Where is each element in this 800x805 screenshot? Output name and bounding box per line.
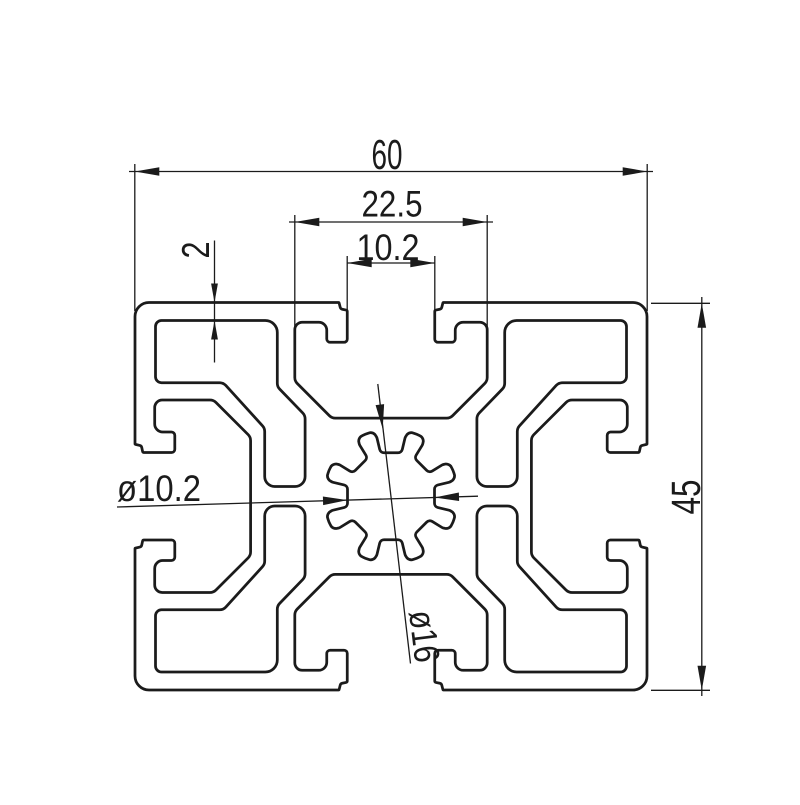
svg-text:22.5: 22.5	[362, 184, 423, 225]
dim 60 right arrowhead	[623, 167, 648, 176]
dim 10.2 left arrowhead	[347, 259, 372, 268]
svg-text:10.2: 10.2	[357, 227, 420, 268]
center star bore	[327, 433, 454, 560]
dim 45 line	[701, 297, 703, 696]
dim 22.5 right arrowhead	[463, 218, 488, 227]
dim 2 shaft	[214, 241, 216, 363]
dim 2 upper arrowhead	[211, 284, 218, 303]
dim 60 line	[129, 171, 653, 173]
dia10.2 left arrowhead	[323, 497, 348, 506]
dim 22.5 line	[289, 221, 493, 223]
chamber NE	[477, 506, 627, 672]
leader dia16	[378, 384, 411, 664]
dim 60 left arrowhead	[135, 167, 160, 176]
chamber SE	[477, 321, 627, 487]
dim 22.5 left arrowhead	[295, 218, 320, 227]
dim 10.2 extension lines	[346, 256, 348, 312]
profile outer contour with T-slots	[135, 303, 647, 691]
svg-text:60: 60	[372, 131, 403, 178]
leader dia10.2	[117, 496, 478, 507]
dim 22.5 extension lines	[294, 215, 296, 345]
dim 45 extension lines	[651, 302, 710, 304]
svg-text:2: 2	[175, 242, 218, 259]
dim 60 extension lines	[134, 164, 136, 311]
dim 45 bottom arrowhead	[698, 666, 707, 691]
dim 45 top arrowhead	[698, 303, 707, 328]
chamber NW	[156, 506, 306, 672]
svg-text:ø16: ø16	[401, 608, 448, 665]
dim 10.2 right arrowhead	[410, 259, 435, 268]
dim 10.2 line	[347, 262, 435, 264]
dia16 arrowhead	[376, 404, 385, 429]
dim 2 lower arrowhead	[211, 321, 218, 340]
dia10.2 right arrowhead	[435, 492, 460, 501]
chamber SW	[156, 321, 306, 487]
svg-text:45: 45	[663, 480, 709, 515]
svg-text:ø10.2: ø10.2	[117, 468, 201, 509]
